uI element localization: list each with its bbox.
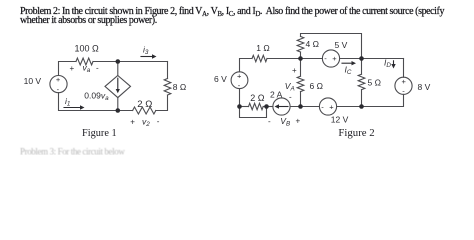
resistor 2ohm fig1 [133, 107, 156, 114]
svg-text:8 Ω: 8 Ω [173, 82, 186, 92]
wire fig2 12V to 6ohm bottom node [290, 106, 319, 108]
wire fig2 8V bottom to node [362, 94, 404, 106]
voltage source 6V circle [231, 72, 248, 89]
wire fig2 right branch top [403, 59, 405, 78]
svg-text:VA: VA [285, 81, 295, 93]
wire fig1 top-left from source to 100ohm [59, 62, 77, 76]
svg-text:+: + [332, 54, 337, 63]
wire fig2 bypass loop under 2ohm [240, 107, 267, 118]
svg-text:6 Ω: 6 Ω [310, 81, 323, 91]
svg-text:+: + [402, 77, 407, 86]
arrowhead 2A [275, 104, 280, 108]
resistor 6ohm [297, 76, 304, 91]
wire fig2 node A down to 6ohm [300, 59, 302, 77]
junction dot node B [359, 56, 364, 61]
wire fig2 node B down to 5ohm [361, 59, 363, 75]
svg-text:10 V: 10 V [24, 76, 42, 86]
wire fig2 5V to node B to corner [340, 58, 404, 60]
wire fig2 2ohm to left node [240, 106, 249, 108]
junction dot 5ohm bottom [359, 104, 364, 109]
resistor 1ohm [252, 55, 267, 61]
current source 2A circle [273, 98, 290, 115]
svg-text:VB: VB [280, 116, 290, 128]
arrowhead IC [352, 61, 357, 65]
junction dot node A [298, 56, 303, 61]
resistor 2ohm fig2 [249, 103, 264, 109]
svg-text:Problem 3: For the circuit bel: Problem 3: For the circuit below [20, 147, 125, 156]
svg-text:0.09va: 0.09va [84, 91, 109, 103]
current arrow i1 [64, 107, 81, 109]
wire fig1 top from 100ohm to node and corner [93, 61, 168, 63]
arrow inside diamond pointing down [117, 78, 119, 89]
junction dot 2ohm right [264, 104, 269, 109]
svg-text:5 V: 5 V [335, 40, 348, 50]
junction dot 6ohm bottom [298, 104, 303, 109]
wire fig2 5ohm to bottom node [361, 90, 363, 107]
junction dot fig1 bottom [116, 108, 121, 113]
svg-text:v2: v2 [142, 117, 150, 129]
svg-text:12 V: 12 V [331, 114, 349, 124]
svg-text:ID: ID [384, 58, 391, 70]
wire fig1 right top segment [167, 62, 169, 79]
wire fig2 6V bottom to left node [239, 89, 241, 107]
dependent current source diamond 0.09va [105, 76, 131, 98]
wire fig2 bottom node to 12V [337, 106, 362, 108]
resistor 8ohm [164, 79, 171, 96]
arrowhead i3 [152, 54, 157, 58]
svg-text:+: + [329, 103, 334, 112]
svg-text:+: + [56, 75, 61, 84]
svg-text:8 V: 8 V [418, 82, 431, 92]
current arrow i3 [141, 56, 153, 58]
arrowhead diamond [116, 89, 120, 93]
wire fig2 top rail riser above node A [300, 52, 302, 59]
current arrow ID down [393, 61, 395, 65]
svg-text:1 Ω: 1 Ω [256, 43, 269, 53]
svg-text:i1: i1 [65, 96, 70, 108]
svg-text:-: - [289, 93, 292, 102]
resistor 100ohm [76, 58, 93, 65]
junction dot 2ohm left [237, 104, 242, 109]
wire fig1 bottom from 2ohm to source [59, 93, 133, 111]
wire fig2 top-left corner to 1ohm [240, 59, 253, 72]
svg-text:IC: IC [345, 65, 352, 77]
problem statement text line 1 and 2 [20, 7, 444, 25]
wire fig2 top rail [301, 34, 362, 59]
arrowhead i1 [80, 105, 85, 109]
svg-text:i3: i3 [143, 45, 149, 57]
wire fig2 1ohm to node A [267, 58, 322, 60]
svg-text:2 Ω: 2 Ω [137, 99, 152, 110]
svg-text:2 Ω: 2 Ω [250, 93, 265, 103]
svg-text:Figure 2: Figure 2 [338, 127, 374, 139]
svg-text:-: - [157, 117, 160, 126]
svg-text:-: - [321, 102, 324, 111]
svg-text:100 Ω: 100 Ω [75, 44, 100, 54]
svg-text:-: - [324, 54, 327, 63]
svg-text:+: + [70, 64, 75, 73]
svg-text:5 Ω: 5 Ω [368, 78, 381, 88]
svg-text:6 V: 6 V [214, 74, 227, 84]
svg-text:+: + [292, 66, 297, 75]
current arrow IC [342, 62, 352, 64]
voltage source 8V circle [395, 77, 412, 94]
wire fig1 right bottom segment [156, 95, 168, 111]
svg-text:4 Ω: 4 Ω [306, 39, 319, 49]
svg-text:va: va [83, 63, 91, 75]
svg-text:+: + [296, 117, 301, 126]
wire fig1 diamond top connection [117, 62, 119, 76]
svg-text:+: + [130, 118, 135, 127]
resistor 5ohm [358, 74, 365, 90]
arrow inside 2A source pointing left [279, 106, 289, 108]
voltage source 12V circle [319, 98, 336, 115]
svg-text:-: - [96, 64, 99, 73]
wire fig1 diamond bottom connection [117, 98, 119, 111]
resistor 4ohm [297, 37, 304, 53]
arrowhead ID [391, 64, 395, 69]
wire fig2 2A to 2ohm [263, 106, 273, 108]
svg-text:+: + [237, 72, 242, 81]
svg-text:2 A: 2 A [270, 89, 283, 99]
wire fig2 6ohm to bottom node [300, 92, 302, 107]
junction dot fig1 top [116, 59, 121, 64]
svg-text:-: - [268, 117, 271, 126]
voltage source 5V circle [322, 50, 339, 67]
voltage source 10V circle [50, 76, 67, 93]
svg-text:Figure 1: Figure 1 [82, 128, 117, 139]
